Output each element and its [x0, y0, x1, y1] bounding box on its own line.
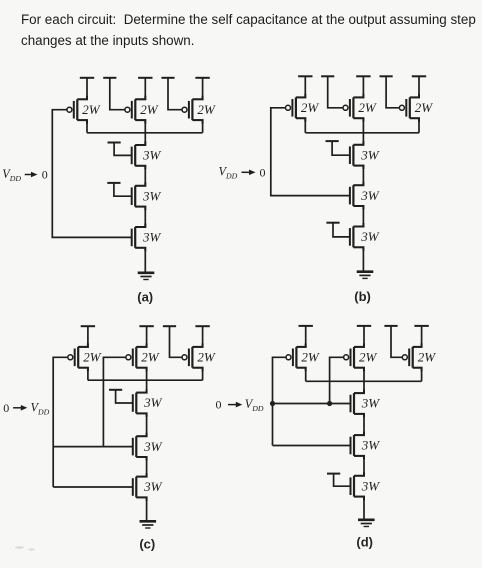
- VDD supply bar b-P3: [412, 75, 426, 77]
- svg-text:2W: 2W: [82, 102, 101, 117]
- wire Q6 source to ground: [135, 248, 145, 273]
- svg-text:0: 0: [260, 165, 266, 179]
- wire Q4 source to Q5 drain: [135, 166, 145, 186]
- wire Q19 drain to output rail: [296, 368, 305, 382]
- transistor Q1 (PMOS): [67, 96, 87, 124]
- VDD tie bar b-G9: [380, 75, 393, 77]
- transistor Q5 (NMOS): [132, 182, 146, 210]
- wire Q3 drain to output rail: [192, 120, 202, 133]
- VDD tie bar b-G10: [326, 140, 339, 142]
- svg-text:2W: 2W: [141, 350, 160, 365]
- transistor Q8 (PMOS): [343, 94, 363, 122]
- circuit (d): [216, 326, 437, 549]
- wire VDD tie to Q16 gate: [116, 390, 133, 403]
- VDD supply bar d-P1: [299, 325, 313, 327]
- VDD tie bar c-G16: [109, 389, 122, 391]
- wire output rail: [305, 132, 419, 134]
- svg-text:(c): (c): [139, 537, 155, 552]
- wire Q13 drain to output rail: [78, 368, 88, 381]
- VDD tie bar c-G15: [163, 325, 176, 327]
- VDD supply bar a-P1: [80, 77, 94, 79]
- wire Q24 source to ground: [354, 497, 364, 520]
- VDD tie bar a-G2: [103, 77, 116, 79]
- VDD supply bar c-P1: [81, 325, 95, 327]
- transistor Q6 (NMOS): [132, 224, 146, 252]
- wire Q1 drain to output rail: [77, 120, 87, 133]
- wire Q8 drain to Q10 drain: [353, 118, 363, 145]
- wire VDD to Q14 source: [136, 326, 146, 347]
- ground circuit c: [140, 521, 157, 528]
- input label VDD -> 0 for circuit (b): [219, 165, 266, 181]
- wire Q9 drain to output rail: [410, 118, 419, 133]
- wire VDD to Q13 source: [78, 326, 88, 347]
- wire Q12 source to ground: [353, 247, 363, 271]
- svg-text:3W: 3W: [361, 478, 381, 493]
- ground circuit a: [138, 273, 155, 280]
- wire output rail: [88, 379, 203, 381]
- wire Q23 source to Q24 drain: [354, 456, 364, 476]
- svg-text:0: 0: [3, 401, 9, 415]
- transistor Q10 (NMOS): [350, 141, 364, 169]
- svg-text:0: 0: [42, 168, 48, 182]
- wire node A to Q22 gate: [273, 403, 351, 405]
- wire VDD to Q3 source: [192, 78, 202, 100]
- svg-text:2W: 2W: [301, 350, 320, 365]
- wire input net VDD-to-0 (Q1 gate to Q6 gate): [52, 110, 131, 238]
- wire VDD to Q2 source: [135, 78, 145, 100]
- wire VDD tie to Q3 gate: [168, 78, 182, 110]
- VDD tie bar b-G12: [326, 222, 339, 224]
- VDD tie bar a-G3: [161, 77, 174, 79]
- wire VDD tie to Q12 gate: [333, 223, 350, 237]
- svg-text:3W: 3W: [360, 229, 380, 244]
- input label 0 -> VDD for circuit (d): [216, 397, 264, 413]
- wire VDD to Q7 source: [296, 76, 305, 97]
- wire output rail: [306, 380, 422, 382]
- transistor Q24 (NMOS): [351, 472, 365, 500]
- input label 0 -> VDD for circuit (c): [3, 400, 49, 416]
- svg-text:3W: 3W: [142, 188, 162, 203]
- svg-text:3W: 3W: [143, 395, 163, 410]
- VDD tie bar a-G5: [107, 182, 120, 184]
- VDD supply bar b-P1: [298, 75, 312, 77]
- transistor Q18 (NMOS): [133, 473, 147, 501]
- wire Q2 drain to Q4 drain: [135, 120, 145, 145]
- wire input to Q17 gate: [53, 446, 133, 448]
- wire Q20 gate drop to node A: [330, 357, 344, 403]
- svg-text:(a): (a): [137, 289, 153, 304]
- wire Q15 drain to output rail: [192, 368, 202, 381]
- transistor Q11 (NMOS): [350, 182, 364, 210]
- wire Q18 source to ground: [136, 497, 146, 521]
- svg-text:3W: 3W: [360, 147, 380, 162]
- svg-text:0: 0: [216, 397, 222, 411]
- ground circuit d: [358, 520, 375, 527]
- transistor Q3 (PMOS): [182, 96, 203, 124]
- VDD supply bar a-P2: [138, 77, 152, 79]
- svg-text:VDD: VDD: [2, 167, 21, 183]
- wire VDD to Q21 source: [413, 326, 422, 347]
- wire VDD to Q19 source: [296, 326, 305, 347]
- wire VDD to Q1 source: [77, 78, 87, 100]
- svg-text:2W: 2W: [140, 102, 159, 117]
- wire VDD tie to Q15 gate: [170, 326, 183, 357]
- wire Q11 source to Q12 drain: [353, 206, 363, 227]
- wire VDD tie to Q2 gate: [110, 78, 125, 110]
- transistor Q2 (PMOS): [125, 96, 145, 124]
- transistor Q15 (PMOS): [182, 343, 203, 371]
- input label VDD -> 0 for circuit (a): [2, 167, 48, 183]
- wire Q17 source to Q18 drain: [136, 457, 146, 477]
- transistor Q7 (PMOS): [286, 94, 306, 122]
- wire VDD tie to Q5 gate: [114, 183, 132, 196]
- VDD supply bar c-P3: [195, 325, 209, 327]
- wire VDD tie to Q4 gate: [114, 143, 132, 156]
- wire Q10 source to Q11 drain: [353, 166, 363, 186]
- transistor Q21 (PMOS): [402, 343, 421, 371]
- VDD tie bar d-G21: [384, 325, 397, 327]
- wire VDD to Q15 source: [192, 326, 202, 347]
- wire Q16 source to Q17 drain: [136, 413, 146, 436]
- wire VDD tie to Q10 gate: [332, 141, 350, 155]
- wire VDD to Q9 source: [410, 76, 419, 97]
- transistor Q19 (PMOS): [286, 343, 306, 371]
- wire input net 0-to-VDD (Q13 gate down left side): [53, 357, 68, 487]
- circuit (a): [2, 78, 216, 304]
- VDD supply bar d-P2: [357, 325, 371, 327]
- svg-text:VDD: VDD: [245, 397, 264, 413]
- svg-text:(d): (d): [356, 534, 373, 549]
- VDD supply bar c-P2: [139, 325, 153, 327]
- transistor Q20 (PMOS): [344, 343, 364, 371]
- transistor Q16 (NMOS): [133, 389, 147, 417]
- VDD supply bar d-P3: [414, 325, 428, 327]
- svg-text:3W: 3W: [361, 438, 381, 453]
- wire VDD to Q20 source: [354, 326, 364, 347]
- transistor Q9 (PMOS): [399, 94, 419, 122]
- svg-text:2W: 2W: [418, 350, 437, 365]
- wire Q7 drain to output rail: [296, 118, 305, 133]
- svg-text:(b): (b): [354, 289, 371, 304]
- circuit (c): [3, 326, 216, 551]
- svg-text:2W: 2W: [301, 100, 320, 115]
- VDD tie bar a-G4: [108, 142, 121, 144]
- wire Q22 source to Q23 drain: [354, 414, 364, 435]
- wire Q21 drain to output rail: [413, 368, 422, 382]
- VDD supply bar a-P3: [195, 77, 209, 79]
- transistor Q13 (PMOS): [68, 343, 88, 371]
- wire Q14 gate drop to input net: [103, 357, 126, 446]
- ground circuit b: [357, 272, 374, 279]
- wire VDD tie to Q9 gate: [386, 76, 399, 108]
- svg-text:VDD: VDD: [219, 165, 238, 181]
- problem statement text: [21, 9, 482, 51]
- VDD supply bar b-P2: [356, 75, 370, 77]
- wire input to Q18 gate: [53, 486, 133, 488]
- wire VDD to Q8 source: [353, 76, 363, 97]
- junction dot node A at Q20 gate: [327, 401, 332, 406]
- wire input net VDD-to-0 (Q7 gate to Q11 gate): [271, 108, 350, 196]
- VDD tie bar b-G8: [321, 75, 334, 77]
- svg-text:2W: 2W: [197, 350, 216, 365]
- VDD tie bar d-G24: [327, 473, 340, 475]
- transistor Q12 (NMOS): [350, 223, 364, 251]
- svg-text:VDD: VDD: [31, 400, 50, 416]
- wire output rail: [87, 132, 203, 134]
- svg-text:2W: 2W: [415, 100, 434, 115]
- svg-text:2W: 2W: [358, 100, 377, 115]
- svg-text:3W: 3W: [143, 439, 163, 454]
- svg-text:3W: 3W: [142, 230, 162, 245]
- transistor Q17 (NMOS): [133, 433, 147, 461]
- svg-text:3W: 3W: [143, 479, 163, 494]
- wire Q14 drain to Q16 drain: [136, 368, 146, 393]
- wire VDD tie to Q24 gate: [334, 474, 351, 487]
- svg-text:3W: 3W: [142, 148, 162, 163]
- wire Q5 source to Q6 drain: [135, 207, 145, 227]
- wire VDD tie to Q21 gate: [391, 326, 402, 357]
- transistor Q22 (NMOS): [351, 390, 365, 418]
- wire VDD tie to Q8 gate: [328, 76, 343, 108]
- transistor Q23 (NMOS): [351, 432, 365, 460]
- svg-text:2W: 2W: [83, 350, 102, 365]
- wire input net 0-to-VDD (Q19 gate down left side): [273, 357, 287, 445]
- wire input to Q23 gate: [273, 445, 351, 447]
- circuit (b): [219, 76, 434, 304]
- svg-text:2W: 2W: [197, 102, 216, 117]
- svg-text:2W: 2W: [359, 350, 378, 365]
- wire Q20 drain to Q22 drain: [354, 368, 364, 393]
- junction dot node A at input: [270, 401, 275, 406]
- svg-text:3W: 3W: [361, 396, 381, 411]
- svg-text:3W: 3W: [360, 188, 380, 203]
- transistor Q4 (NMOS): [132, 142, 146, 170]
- transistor Q14 (PMOS): [126, 343, 147, 371]
